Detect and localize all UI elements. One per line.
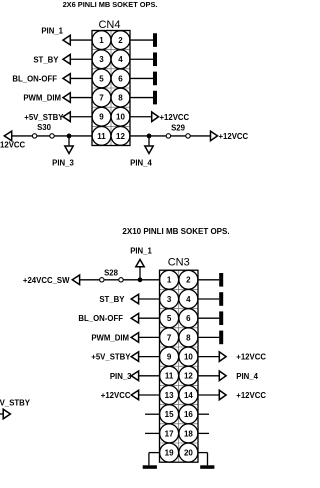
svg-text:+5V_STBY: +5V_STBY bbox=[91, 353, 131, 362]
port BL_ON-OFF (CN3) bbox=[131, 313, 138, 323]
svg-text:8: 8 bbox=[118, 94, 123, 103]
jumper S29 bbox=[166, 134, 190, 138]
port PIN_4 (CN3 pin 12) bbox=[219, 371, 226, 381]
svg-text:7: 7 bbox=[99, 94, 104, 103]
svg-text:8: 8 bbox=[186, 333, 191, 342]
CN3 pin 15 number bbox=[165, 410, 174, 419]
CN4 pin 11 number bbox=[97, 132, 106, 141]
CN3 pin 3 number bbox=[167, 295, 172, 304]
net label PIN_3 (CN3) bbox=[110, 372, 132, 381]
port PIN_1 (CN3, up) bbox=[136, 260, 144, 267]
svg-text:9: 9 bbox=[167, 353, 172, 362]
svg-text:2: 2 bbox=[186, 276, 191, 285]
svg-text:ST_BY: ST_BY bbox=[33, 55, 59, 64]
port +5V_STBY (CN3) bbox=[131, 352, 138, 362]
wire junction to PIN_4 port bbox=[148, 136, 150, 146]
svg-text:CN3: CN3 bbox=[168, 257, 190, 269]
jumper S30 bbox=[32, 134, 54, 138]
CN4 pin 5 number bbox=[99, 74, 104, 83]
svg-text:3: 3 bbox=[99, 55, 104, 64]
CN3 pin 20 number bbox=[184, 449, 193, 458]
svg-text:5: 5 bbox=[99, 74, 104, 83]
CN3 pin 10 number bbox=[184, 353, 193, 362]
CN4 pin 2 number bbox=[118, 36, 123, 45]
connector CN4 body bbox=[92, 31, 130, 146]
svg-text:12: 12 bbox=[184, 372, 193, 381]
no-connect terminator bar on CN3 pin 2 bbox=[219, 273, 223, 287]
CN4 pin 10 number bbox=[116, 113, 125, 122]
port +12VCC (CN4 left) bbox=[4, 131, 11, 141]
svg-text:18: 18 bbox=[184, 429, 193, 438]
CN3 pin 8 number bbox=[186, 333, 191, 342]
net label +12VCC (CN3 pin 14) bbox=[236, 391, 266, 400]
CN3 pin 19 number bbox=[165, 449, 174, 458]
no-connect terminator bar on CN3 pin 6 bbox=[219, 311, 223, 325]
svg-text:1: 1 bbox=[167, 276, 172, 285]
svg-text:6: 6 bbox=[186, 314, 191, 323]
wire CN3 pin 1 to jumper S28 and +24VCC_SW port bbox=[80, 279, 160, 281]
wire CN4 pin 4 to terminator bbox=[130, 58, 153, 60]
net label PWM_DIM (CN3) bbox=[91, 333, 129, 342]
wire CN4 pin 8 to terminator bbox=[130, 97, 153, 99]
port PWM_DIM (CN3) bbox=[131, 333, 138, 343]
net label PIN_1 (CN4) bbox=[41, 27, 63, 36]
net label +5V_STBY (clipped, left edge) bbox=[0, 399, 31, 408]
stub wire CN3 pin 17 bbox=[145, 432, 160, 434]
net label +5V_STBY (CN4) bbox=[24, 113, 64, 122]
CN3 pin 18 number bbox=[184, 429, 193, 438]
port +12VCC (CN3 pin 10) bbox=[219, 352, 226, 362]
wire CN3 pin 5 to port BL_ON-OFF bbox=[139, 317, 160, 319]
svg-text:13: 13 bbox=[165, 391, 174, 400]
wire CN4 pin 1 to port PIN_1 bbox=[70, 39, 92, 41]
wire CN4 pin 9 to port +5V_STBY bbox=[70, 116, 92, 118]
svg-text:2: 2 bbox=[118, 36, 123, 45]
svg-text:10: 10 bbox=[116, 113, 125, 122]
net label +12VCC (CN4 left) bbox=[0, 140, 26, 149]
CN4 pin 3 number bbox=[99, 55, 104, 64]
svg-text:S28: S28 bbox=[104, 269, 119, 278]
CN3 pin 9 number bbox=[167, 353, 172, 362]
svg-text:4: 4 bbox=[186, 295, 191, 304]
no-connect terminator bar on CN4 pin 4 bbox=[153, 52, 157, 66]
port PWM_DIM (CN4) bbox=[63, 93, 70, 103]
svg-text:9: 9 bbox=[99, 113, 104, 122]
port +12VCC (CN3 pin 14) bbox=[219, 390, 226, 400]
wire CN4 pin 7 to port PWM_DIM bbox=[70, 97, 92, 99]
svg-text:+12VCC: +12VCC bbox=[101, 391, 131, 400]
net label PIN_4 (CN3 pin 12) bbox=[236, 372, 258, 381]
jumper S28 label bbox=[104, 269, 119, 278]
svg-text:BL_ON-OFF: BL_ON-OFF bbox=[12, 74, 57, 83]
stub wire CN3 pin 15 bbox=[145, 413, 160, 415]
net label PWM_DIM (CN4) bbox=[23, 94, 61, 103]
CN3 pin 12 number bbox=[184, 372, 193, 381]
net label BL_ON-OFF (CN4) bbox=[12, 74, 57, 83]
port PIN_3 (CN3) bbox=[131, 371, 138, 381]
svg-text:14: 14 bbox=[184, 391, 193, 400]
wire CN3 pin 14 to port +12VCC bbox=[198, 394, 219, 396]
svg-text:15: 15 bbox=[165, 410, 174, 419]
net label PIN_3 (CN4) bbox=[52, 159, 74, 168]
CN3 pin 11 number bbox=[165, 372, 174, 381]
port +12VCC (CN3) bbox=[131, 390, 138, 400]
net label +24VCC_SW bbox=[23, 276, 70, 285]
ground (CN3 pin 20) bbox=[200, 465, 214, 469]
wire CN3 pin 13 to port +12VCC bbox=[139, 394, 160, 396]
no-connect terminator bar on CN3 pin 8 bbox=[219, 331, 223, 345]
wire junction to PIN_1 port (CN3) bbox=[139, 267, 141, 280]
svg-text:20: 20 bbox=[184, 449, 193, 458]
svg-text:2X6 PINLI MB SOKET OPS.: 2X6 PINLI MB SOKET OPS. bbox=[63, 0, 158, 9]
wire CN3 pin 10 to port +12VCC bbox=[198, 356, 219, 358]
CN4 pin 4 number bbox=[118, 55, 123, 64]
svg-text:PWM_DIM: PWM_DIM bbox=[91, 333, 129, 342]
wire CN3 pin 3 to port ST_BY bbox=[139, 298, 160, 300]
svg-text:PIN_3: PIN_3 bbox=[110, 372, 132, 381]
jumper S28 bbox=[100, 278, 124, 282]
connector CN4 designator bbox=[98, 19, 120, 31]
svg-text:+5V_STBY: +5V_STBY bbox=[0, 399, 31, 408]
wire CN3 pin 9 to port +5V_STBY bbox=[139, 356, 160, 358]
svg-text:+12VCC: +12VCC bbox=[236, 391, 266, 400]
wire junction to PIN_3 port bbox=[68, 136, 70, 146]
CN3 pin 4 number bbox=[186, 295, 191, 304]
junction on CN4 pin 11 wire bbox=[67, 134, 72, 139]
svg-text:PIN_4: PIN_4 bbox=[130, 159, 152, 168]
connector CN3 designator bbox=[168, 257, 190, 269]
CN3 pin 14 number bbox=[184, 391, 193, 400]
net label PIN_1 (CN3) bbox=[130, 247, 152, 256]
svg-text:PIN_3: PIN_3 bbox=[52, 159, 74, 168]
svg-text:+12VCC: +12VCC bbox=[236, 353, 266, 362]
CN3 pin 7 number bbox=[167, 333, 172, 342]
net label ST_BY (CN4) bbox=[33, 55, 59, 64]
wire CN3 pin 12 to port PIN_4 bbox=[198, 375, 219, 377]
net label +12VCC (CN4 pin 10) bbox=[160, 113, 190, 122]
port PIN_3 (CN4, down) bbox=[65, 146, 73, 154]
jumper S30 label bbox=[37, 123, 52, 132]
wire CN3 pin 6 to terminator bbox=[198, 317, 219, 319]
CN4 pin 8 number bbox=[118, 94, 123, 103]
stub wire CN3 pin 18 bbox=[198, 432, 209, 434]
svg-text:11: 11 bbox=[165, 372, 174, 381]
net label +12VCC (CN3 pin 10) bbox=[236, 353, 266, 362]
CN3 pin 13 number bbox=[165, 391, 174, 400]
svg-text:1: 1 bbox=[99, 36, 104, 45]
stub wire CN3 pin 16 bbox=[198, 413, 209, 415]
svg-text:12: 12 bbox=[116, 132, 125, 141]
net label BL_ON-OFF (CN3) bbox=[78, 314, 123, 323]
wire CN3 pin 19 to ground bbox=[149, 453, 160, 466]
no-connect terminator bar on CN4 pin 2 bbox=[153, 33, 157, 47]
wire CN4 pin 5 to port BL_ON-OFF bbox=[70, 77, 92, 79]
svg-text:PIN_1: PIN_1 bbox=[41, 27, 63, 36]
net label +12VCC (CN3) bbox=[101, 391, 131, 400]
svg-text:10: 10 bbox=[184, 353, 193, 362]
CN3 pin 16 number bbox=[184, 410, 193, 419]
no-connect terminator bar on CN4 pin 6 bbox=[153, 72, 157, 86]
svg-text:ST_BY: ST_BY bbox=[99, 295, 125, 304]
CN4 pin 7 number bbox=[99, 94, 104, 103]
CN3 pin 17 number bbox=[165, 429, 174, 438]
svg-text:+5V_STBY: +5V_STBY bbox=[24, 113, 64, 122]
wire CN4 pin 6 to terminator bbox=[130, 77, 153, 79]
CN3 pin 1 number bbox=[167, 276, 172, 285]
no-connect terminator bar on CN4 pin 8 bbox=[153, 91, 157, 105]
net label +12VCC (CN4 pin 12) bbox=[219, 132, 249, 141]
svg-text:S30: S30 bbox=[37, 123, 52, 132]
svg-text:+24VCC_SW: +24VCC_SW bbox=[23, 276, 70, 285]
CN4 pin 6 number bbox=[118, 74, 123, 83]
wire CN4 pin 11 to jumper S30 and +12VCC port bbox=[12, 135, 92, 137]
port BL_ON-OFF (CN4) bbox=[63, 74, 70, 84]
svg-text:PIN_1: PIN_1 bbox=[130, 247, 152, 256]
junction on CN3 pin 1 wire bbox=[138, 277, 143, 282]
port +12VCC (CN4 pin 10) bbox=[152, 112, 159, 122]
stub wire to clipped port (left edge) bbox=[0, 413, 3, 415]
CN4 pin 9 number bbox=[99, 113, 104, 122]
no-connect terminator bar on CN3 pin 4 bbox=[219, 292, 223, 306]
CN3 pin 6 number bbox=[186, 314, 191, 323]
wire CN3 pin 11 to port PIN_3 bbox=[139, 375, 160, 377]
title: 2X6 PINLI MB SOKET OPS. bbox=[63, 0, 158, 9]
wire CN4 pin 2 to terminator bbox=[130, 39, 153, 41]
port ST_BY (CN4) bbox=[63, 54, 70, 64]
wire CN4 pin 3 to port ST_BY bbox=[70, 58, 92, 60]
svg-text:PIN_4: PIN_4 bbox=[236, 372, 258, 381]
wire CN3 pin 2 to terminator bbox=[198, 279, 219, 281]
wire CN3 pin 4 to terminator bbox=[198, 298, 219, 300]
ground (CN3 pin 19) bbox=[143, 465, 157, 469]
connector CN3 body bbox=[160, 270, 199, 462]
CN3 pin 5 number bbox=[167, 314, 172, 323]
wire CN3 pin 20 to ground bbox=[198, 453, 208, 466]
net label +5V_STBY (CN3) bbox=[91, 353, 131, 362]
port PIN_1 (CN4) bbox=[63, 35, 70, 45]
svg-text:PWM_DIM: PWM_DIM bbox=[23, 94, 61, 103]
jumper S29 label bbox=[171, 123, 186, 132]
port +5V_STBY (CN4) bbox=[63, 112, 70, 122]
svg-text:17: 17 bbox=[165, 429, 174, 438]
svg-text:+12VCC: +12VCC bbox=[0, 140, 26, 149]
svg-text:19: 19 bbox=[165, 449, 174, 458]
port +12VCC (CN4 pin 12) bbox=[211, 131, 218, 141]
wire CN4 pin 10 to +12VCC port bbox=[130, 116, 152, 118]
svg-text:11: 11 bbox=[97, 132, 106, 141]
port PIN_4 (CN4, down) bbox=[145, 146, 153, 154]
svg-text:3: 3 bbox=[167, 295, 172, 304]
net label ST_BY (CN3) bbox=[99, 295, 125, 304]
CN4 pin 12 number bbox=[116, 132, 125, 141]
junction on CN4 pin 12 wire bbox=[147, 134, 152, 139]
svg-text:+12VCC: +12VCC bbox=[219, 132, 249, 141]
wire CN3 pin 8 to terminator bbox=[198, 336, 219, 338]
svg-text:S29: S29 bbox=[171, 123, 186, 132]
svg-text:2X10 PINLI MB SOKET OPS.: 2X10 PINLI MB SOKET OPS. bbox=[122, 227, 229, 236]
wire CN3 pin 7 to port PWM_DIM bbox=[139, 336, 160, 338]
port ST_BY (CN3) bbox=[131, 294, 138, 304]
CN4 pin 1 number bbox=[99, 36, 104, 45]
svg-text:6: 6 bbox=[118, 74, 123, 83]
port +24VCC_SW bbox=[72, 275, 79, 285]
title: 2X10 PINLI MB SOKET OPS. bbox=[122, 227, 229, 236]
net label PIN_4 (CN4) bbox=[130, 159, 152, 168]
svg-text:CN4: CN4 bbox=[98, 19, 120, 31]
port (clipped, left edge, right-pointing) bbox=[3, 409, 10, 419]
svg-text:16: 16 bbox=[184, 410, 193, 419]
svg-text:+12VCC: +12VCC bbox=[160, 113, 190, 122]
svg-text:5: 5 bbox=[167, 314, 172, 323]
svg-text:7: 7 bbox=[167, 333, 172, 342]
svg-text:4: 4 bbox=[118, 55, 123, 64]
CN3 pin 2 number bbox=[186, 276, 191, 285]
wire CN4 pin 12 to jumper S29 and +12VCC port bbox=[130, 135, 211, 137]
svg-text:BL_ON-OFF: BL_ON-OFF bbox=[78, 314, 123, 323]
